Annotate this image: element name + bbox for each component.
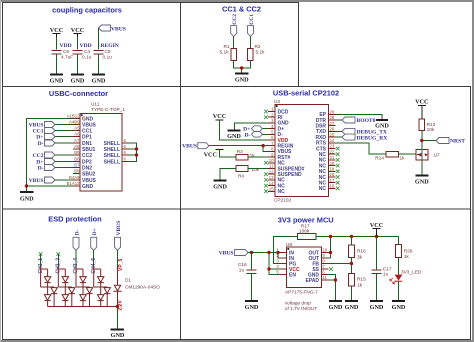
ground (ESD) bbox=[111, 328, 125, 330]
svg-text:A6: A6 bbox=[74, 131, 80, 136]
svg-text:B4A9: B4A9 bbox=[69, 175, 80, 180]
section box: coupling capacitors bbox=[3, 3, 181, 87]
no-connect marks right bbox=[336, 147, 340, 191]
wire RTS to R14 bbox=[336, 143, 387, 154]
no-connect CH2 bbox=[57, 252, 61, 256]
svg-text:18: 18 bbox=[330, 172, 335, 177]
svg-text:GND: GND bbox=[50, 78, 64, 85]
resistor R16 bbox=[349, 245, 355, 257]
svg-text:GND: GND bbox=[227, 133, 241, 140]
svg-text:VDD: VDD bbox=[60, 43, 72, 49]
ground (CC) bbox=[235, 73, 249, 75]
svg-text:25: 25 bbox=[330, 132, 335, 137]
svg-text:20: 20 bbox=[330, 161, 335, 166]
svg-text:C16: C16 bbox=[238, 262, 247, 268]
ground (R4) bbox=[214, 180, 227, 182]
wire VBUS to VP bbox=[117, 250, 119, 266]
svg-text:C6: C6 bbox=[63, 49, 69, 55]
svg-text:GND: GND bbox=[82, 184, 94, 190]
wire VDD net (mid) bbox=[77, 37, 79, 50]
svg-text:SBU2: SBU2 bbox=[82, 171, 96, 177]
wire C5 to GND bbox=[98, 55, 100, 74]
svg-text:C4: C4 bbox=[84, 49, 90, 55]
wire TXD to DEBUG_TX bbox=[336, 130, 343, 132]
svg-text:0,1u: 0,1u bbox=[103, 55, 113, 61]
svg-text:VCC: VCC bbox=[370, 222, 383, 229]
hier label DEBUG_TX bbox=[342, 128, 355, 134]
svg-text:GND: GND bbox=[245, 304, 259, 311]
transistor U7 bbox=[416, 149, 428, 160]
resistor R4 bbox=[236, 166, 248, 172]
ground (under C5) bbox=[92, 74, 105, 76]
svg-text:B5: B5 bbox=[74, 150, 80, 155]
section box: USB-serial CP2102 bbox=[181, 87, 471, 210]
wire VP to GND bbox=[117, 307, 119, 329]
svg-text:1u: 1u bbox=[383, 271, 389, 277]
svg-text:EPAD: EPAD bbox=[305, 278, 319, 284]
U3 left pin stubs bbox=[268, 112, 275, 192]
svg-text:R4: R4 bbox=[238, 173, 244, 179]
svg-text:coupling capacitors: coupling capacitors bbox=[52, 5, 122, 14]
wire D- to CH3 bbox=[75, 250, 77, 266]
svg-text:13: 13 bbox=[269, 175, 274, 180]
wire R17 to PG bbox=[274, 237, 298, 264]
svg-text:4.7uF: 4.7uF bbox=[61, 55, 73, 61]
svg-text:VCC: VCC bbox=[50, 27, 63, 34]
svg-text:REGIN: REGIN bbox=[101, 43, 119, 49]
svg-text:10: 10 bbox=[322, 248, 327, 253]
svg-text:1k: 1k bbox=[400, 155, 406, 161]
svg-text:GND: GND bbox=[370, 304, 384, 311]
svg-text:GND: GND bbox=[71, 78, 85, 85]
svg-text:ESD protection: ESD protection bbox=[48, 215, 102, 224]
ground (U3 GND pin) bbox=[235, 123, 269, 130]
svg-text:SHELL: SHELL bbox=[104, 159, 120, 165]
resistor R3 bbox=[236, 154, 248, 160]
svg-text:15: 15 bbox=[269, 187, 274, 192]
svg-text:17: 17 bbox=[330, 178, 335, 183]
resistor R15 bbox=[349, 274, 355, 286]
wire R1,R2 to GND junction bbox=[234, 61, 251, 73]
svg-text:D-: D- bbox=[74, 229, 80, 235]
section box: CC1 & CC2 bbox=[181, 3, 299, 87]
svg-text:19: 19 bbox=[330, 167, 335, 172]
svg-text:14: 14 bbox=[269, 181, 274, 186]
svg-text:R17: R17 bbox=[301, 223, 310, 229]
svg-text:VCC: VCC bbox=[213, 113, 226, 120]
resistor R13 bbox=[419, 119, 425, 131]
svg-text:VP_5: VP_5 bbox=[118, 259, 124, 271]
svg-text:12: 12 bbox=[269, 169, 274, 174]
connector U11 body bbox=[80, 114, 122, 192]
U8 pin names bbox=[289, 251, 300, 279]
wire DTR to BOOT0 bbox=[336, 119, 343, 121]
svg-text:1k: 1k bbox=[357, 282, 363, 288]
svg-text:VCC: VCC bbox=[204, 152, 217, 159]
wire VDD net (left) bbox=[56, 37, 58, 50]
svg-text:3V3 power MCU: 3V3 power MCU bbox=[278, 215, 334, 224]
VCC rail / OUT net bbox=[316, 237, 399, 259]
no-connect CH1 bbox=[39, 252, 43, 256]
shell tie wires bbox=[129, 143, 137, 162]
svg-text:22: 22 bbox=[330, 149, 335, 154]
svg-text:3V3_LED: 3V3_LED bbox=[401, 269, 422, 275]
svg-text:GND: GND bbox=[329, 304, 343, 311]
wire D+ to CH4 bbox=[93, 250, 95, 266]
svg-text:U11: U11 bbox=[91, 102, 100, 108]
svg-text:16: 16 bbox=[330, 184, 335, 189]
capacitor C16 bbox=[247, 270, 257, 273]
svg-text:NRST: NRST bbox=[450, 139, 465, 145]
svg-text:CM1290A-04SO: CM1290A-04SO bbox=[125, 285, 160, 291]
resistor R17 bbox=[298, 234, 316, 240]
hier label VBUS bbox=[99, 25, 111, 31]
resistor R1 bbox=[231, 49, 237, 61]
svg-text:VBUS: VBUS bbox=[182, 144, 197, 150]
channel 3 diodes bbox=[76, 266, 93, 307]
svg-text:GND: GND bbox=[235, 77, 249, 84]
wire C4 to GND bbox=[77, 55, 79, 74]
svg-text:GND: GND bbox=[92, 78, 106, 85]
svg-text:R15: R15 bbox=[357, 277, 366, 283]
svg-text:27: 27 bbox=[330, 121, 335, 126]
svg-text:VCC: VCC bbox=[415, 99, 428, 106]
svg-text:26: 26 bbox=[330, 127, 335, 132]
svg-text:DP1: DP1 bbox=[82, 134, 92, 140]
wire CH2 stub bbox=[57, 254, 59, 266]
svg-text:D-: D- bbox=[244, 132, 250, 138]
svg-text:R14: R14 bbox=[375, 155, 384, 161]
ground (R15) bbox=[345, 300, 358, 302]
U11 left pin stubs bbox=[73, 119, 80, 187]
wire R15 to GND bbox=[351, 286, 353, 300]
svg-text:VBUS: VBUS bbox=[111, 27, 126, 33]
svg-text:VBUS: VBUS bbox=[116, 221, 122, 236]
LED 3V3_LED bbox=[395, 275, 403, 281]
svg-text:29: 29 bbox=[330, 110, 335, 115]
section box: ESD protection bbox=[3, 209, 181, 340]
svg-text:5,1k: 5,1k bbox=[220, 50, 230, 56]
wire VBUS to REGIN and VBUS pins bbox=[209, 146, 268, 152]
wire FB node bbox=[328, 257, 351, 273]
svg-text:23: 23 bbox=[330, 144, 335, 149]
U3 right pin names bbox=[315, 112, 326, 192]
svg-text:CC1: CC1 bbox=[249, 14, 255, 25]
svg-text:B1A12: B1A12 bbox=[67, 181, 81, 186]
svg-text:1k: 1k bbox=[250, 153, 256, 159]
wire C16 to GND bbox=[251, 274, 253, 300]
capacitor C17 bbox=[372, 270, 382, 273]
channel 2 diodes bbox=[58, 266, 75, 307]
U11 SHELL pins bbox=[122, 143, 129, 162]
svg-text:voltage drop: voltage drop bbox=[285, 300, 312, 306]
VP zener bbox=[113, 266, 121, 307]
wire VCC to VDD pin bbox=[220, 120, 269, 140]
U8 left pin stubs bbox=[280, 253, 287, 275]
svg-text:GND: GND bbox=[213, 183, 227, 190]
U3 right pin stubs bbox=[329, 114, 336, 188]
U8 pin numbers bbox=[276, 248, 279, 275]
svg-text:3k: 3k bbox=[357, 254, 363, 260]
svg-text:GND: GND bbox=[392, 304, 406, 311]
U3 left pin names bbox=[278, 109, 305, 195]
wire C6 to GND bbox=[56, 55, 58, 74]
svg-text:R2: R2 bbox=[255, 44, 261, 50]
wire R3 to RST# bbox=[248, 156, 268, 158]
wire R13 to Q drain / NRST bbox=[422, 131, 436, 150]
wire LED to GND bbox=[398, 282, 400, 301]
hier label DEBUG_RX bbox=[342, 134, 355, 140]
svg-text:D-: D- bbox=[38, 141, 44, 147]
svg-text:of 1,7V IN/OUT: of 1,7V IN/OUT bbox=[285, 306, 318, 312]
svg-text:USBC-connector: USBC-connector bbox=[49, 89, 108, 98]
svg-text:1u: 1u bbox=[239, 268, 245, 274]
svg-text:AP7175-FNG-7: AP7175-FNG-7 bbox=[285, 290, 318, 296]
svg-text:C5: C5 bbox=[105, 49, 111, 55]
ground (EP) bbox=[376, 119, 388, 121]
svg-text:21: 21 bbox=[330, 155, 335, 160]
svg-text:U8: U8 bbox=[286, 242, 292, 248]
ground (U7) bbox=[415, 175, 428, 177]
ground (under C6) bbox=[50, 74, 63, 76]
svg-text:U3: U3 bbox=[274, 99, 280, 105]
capacitor C5 bbox=[94, 51, 104, 54]
wire CC2 to R1 bbox=[233, 37, 235, 49]
svg-text:2,2V: 2,2V bbox=[118, 300, 124, 311]
svg-text:0,1u: 0,1u bbox=[82, 55, 92, 61]
svg-text:10: 10 bbox=[269, 158, 274, 163]
wire VBUS to IN pins bbox=[248, 253, 280, 275]
svg-text:R1: R1 bbox=[224, 44, 230, 50]
svg-text:VBUS: VBUS bbox=[219, 251, 234, 257]
capacitor C4 bbox=[73, 51, 83, 54]
svg-text:R3: R3 bbox=[237, 149, 243, 155]
bottom rail bbox=[48, 306, 118, 308]
junction bbox=[240, 66, 243, 69]
junction shell bbox=[135, 147, 138, 150]
no-connect SS bbox=[329, 267, 333, 271]
U3 pin numbers bbox=[269, 107, 274, 192]
ground (C16) bbox=[245, 300, 258, 302]
resistor R14 bbox=[386, 151, 398, 157]
ground (U8) bbox=[329, 300, 342, 302]
wire R14 to gate bbox=[398, 153, 416, 155]
svg-text:28: 28 bbox=[330, 115, 335, 120]
svg-text:B8: B8 bbox=[74, 168, 80, 173]
svg-text:A5: A5 bbox=[74, 125, 80, 130]
GND rail left bbox=[27, 119, 74, 192]
svg-text:NC: NC bbox=[278, 189, 286, 195]
svg-text:VDD: VDD bbox=[80, 43, 92, 49]
section box: 3V3 power MCU bbox=[181, 209, 471, 340]
sheet margins bbox=[0, 0, 474, 2]
wire drain, source bbox=[421, 149, 423, 175]
svg-text:A4B9: A4B9 bbox=[69, 119, 80, 124]
ground (LED) bbox=[392, 300, 405, 302]
svg-text:GND: GND bbox=[20, 196, 34, 203]
svg-text:D+: D+ bbox=[92, 228, 98, 235]
channel 1 diodes bbox=[41, 266, 58, 307]
svg-text:GND: GND bbox=[111, 332, 125, 339]
diode array D1 bbox=[41, 266, 122, 307]
wire R4 to SUSPEND# and GND bbox=[220, 169, 268, 181]
svg-text:100k: 100k bbox=[299, 229, 310, 235]
svg-text:10k: 10k bbox=[251, 167, 259, 173]
svg-text:NC: NC bbox=[319, 186, 327, 192]
svg-text:CC2: CC2 bbox=[82, 153, 92, 159]
hier label BOOT0 bbox=[342, 117, 355, 123]
svg-text:24: 24 bbox=[330, 138, 335, 143]
svg-text:USB-serial CP2102: USB-serial CP2102 bbox=[273, 89, 339, 98]
regulator U8 body bbox=[287, 247, 322, 287]
svg-text:D-: D- bbox=[38, 166, 44, 172]
svg-text:SHELL: SHELL bbox=[104, 153, 120, 159]
svg-text:CC2: CC2 bbox=[33, 153, 44, 159]
svg-text:A7: A7 bbox=[74, 138, 80, 143]
wire rail to R26 bbox=[398, 237, 400, 245]
resistor R2 bbox=[248, 49, 254, 61]
wire REGIN net bbox=[98, 28, 100, 50]
svg-text:R16: R16 bbox=[357, 249, 366, 255]
svg-text:TYPE-C-TOP_1: TYPE-C-TOP_1 bbox=[91, 107, 125, 113]
capacitor C6 bbox=[52, 51, 62, 54]
hier label NRST bbox=[436, 138, 449, 144]
resistor R26 bbox=[396, 245, 402, 258]
wire RXD to DEBUG_RX bbox=[336, 136, 343, 138]
svg-text:11: 11 bbox=[269, 164, 274, 169]
svg-text:CC1 & CC2: CC1 & CC2 bbox=[222, 5, 261, 14]
wire CH1 stub bbox=[40, 254, 42, 266]
svg-text:D1: D1 bbox=[125, 278, 131, 284]
wire rail to R16 bbox=[351, 237, 353, 246]
svg-text:11: 11 bbox=[322, 275, 327, 280]
channel 4 diodes bbox=[94, 266, 111, 307]
IC U3 CP2102 body bbox=[275, 104, 329, 196]
svg-text:A8: A8 bbox=[74, 144, 80, 149]
svg-text:EN: EN bbox=[289, 273, 296, 279]
U11 pin names bbox=[82, 116, 97, 190]
svg-text:A1B12: A1B12 bbox=[67, 113, 81, 118]
svg-text:CP2102: CP2102 bbox=[274, 198, 292, 204]
svg-text:BOOT0: BOOT0 bbox=[357, 118, 376, 124]
svg-text:R26: R26 bbox=[404, 248, 413, 254]
U8 right pin stubs bbox=[321, 253, 328, 281]
svg-text:B6: B6 bbox=[74, 156, 80, 161]
wire CC1 to R2 bbox=[250, 37, 252, 49]
wire C17 bbox=[376, 237, 378, 301]
svg-text:DEBUG_RX: DEBUG_RX bbox=[357, 135, 388, 141]
svg-text:CC2: CC2 bbox=[232, 14, 238, 25]
wire VCC to R3 bbox=[220, 150, 236, 157]
no-connect marks left bbox=[264, 110, 268, 193]
svg-text:GND: GND bbox=[415, 178, 429, 185]
svg-text:B7: B7 bbox=[74, 162, 80, 167]
svg-text:D+: D+ bbox=[36, 135, 43, 141]
svg-text:1k: 1k bbox=[404, 254, 410, 260]
svg-text:VCC: VCC bbox=[71, 27, 84, 34]
svg-text:5,1k: 5,1k bbox=[256, 50, 266, 56]
ground (C17) bbox=[370, 300, 383, 302]
ground (under C4) bbox=[71, 74, 84, 76]
ground (USBC) bbox=[20, 191, 34, 193]
svg-text:10k: 10k bbox=[427, 127, 435, 133]
section box: USBC-connector bbox=[3, 87, 181, 210]
svg-text:U7: U7 bbox=[434, 153, 440, 159]
U11 pin numbers left bbox=[67, 113, 81, 186]
svg-text:VBUS: VBUS bbox=[29, 178, 44, 184]
wire GND+EPAD pins bbox=[328, 275, 335, 301]
wire EP to GND bbox=[336, 114, 383, 119]
svg-text:GND: GND bbox=[345, 304, 359, 311]
